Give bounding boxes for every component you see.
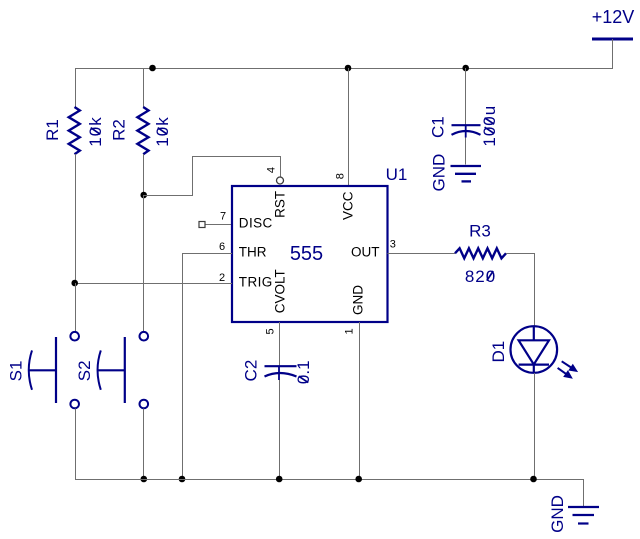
junction dot pin1 rail xyxy=(355,476,362,483)
wire R1 top xyxy=(75,68,77,107)
svg-text:GND: GND xyxy=(548,495,567,533)
power symbol +12V xyxy=(592,7,635,39)
svg-text:C1: C1 xyxy=(428,116,447,138)
wire C1 top xyxy=(465,68,467,125)
svg-text:THR: THR xyxy=(239,245,267,260)
wire pin 1 GND xyxy=(359,322,361,479)
IC U1 555 body xyxy=(232,186,388,322)
capacitor C2 xyxy=(265,366,297,380)
svg-text:GND: GND xyxy=(429,154,448,192)
ground symbol C1 xyxy=(451,166,482,181)
wire C1 to ground xyxy=(465,138,467,165)
wire OUT pin 3 xyxy=(388,253,456,255)
wire R2 bottom xyxy=(143,154,145,195)
wire LED to rail xyxy=(534,373,536,479)
svg-text:4: 4 xyxy=(266,167,278,173)
wire THR xyxy=(183,254,233,480)
wire node A to S1 xyxy=(75,283,77,332)
wire bottom rail xyxy=(75,480,584,507)
svg-text:OUT: OUT xyxy=(351,245,380,260)
wire pin 5 to C2 xyxy=(279,322,281,366)
junction dot C2 rail xyxy=(276,476,283,483)
LED D1 arrows xyxy=(558,361,577,378)
svg-text:U1: U1 xyxy=(386,165,408,184)
svg-text:S2: S2 xyxy=(75,360,94,381)
pin 4 circle RST xyxy=(277,177,284,184)
svg-text:VCC: VCC xyxy=(340,191,355,220)
svg-text:R3: R3 xyxy=(469,222,491,241)
wire R3 to LED xyxy=(506,254,535,327)
wire node B to pin 4 xyxy=(144,157,281,196)
wire TRIG xyxy=(75,283,232,285)
junction dot node B xyxy=(140,192,147,199)
svg-text:R2: R2 xyxy=(109,119,128,141)
svg-text:2: 2 xyxy=(219,272,225,284)
wire +12V stem xyxy=(612,39,614,69)
switch S1 xyxy=(28,332,79,408)
junction dot S2 rail xyxy=(141,476,148,483)
svg-text:TRIG: TRIG xyxy=(239,275,273,290)
wire top rail xyxy=(75,68,613,70)
junction dot rail C1 xyxy=(462,65,469,72)
junction dot LED rail xyxy=(530,476,537,483)
svg-text:100u: 100u xyxy=(480,105,499,147)
svg-text:3: 3 xyxy=(390,239,396,251)
wire VCC pin 8 xyxy=(348,68,350,186)
svg-text:7: 7 xyxy=(220,210,226,222)
wire node B to S2 xyxy=(143,195,145,332)
LED D1 xyxy=(511,326,558,373)
svg-text:8: 8 xyxy=(334,173,346,179)
capacitor C1 xyxy=(452,125,481,138)
svg-text:D1: D1 xyxy=(489,341,508,363)
svg-text:0.1: 0.1 xyxy=(294,360,313,384)
no-connect square pin 7 xyxy=(199,222,205,228)
wire R1 bottom xyxy=(75,154,77,283)
junction dot THR rail xyxy=(179,476,186,483)
resistor R2 xyxy=(137,107,148,154)
svg-text:+12V: +12V xyxy=(592,7,635,27)
svg-text:5: 5 xyxy=(265,328,277,334)
svg-text:6: 6 xyxy=(219,241,225,253)
svg-text:RST: RST xyxy=(273,191,288,218)
switch S2 xyxy=(97,332,148,408)
junction dot rail R2 xyxy=(149,65,156,72)
resistor R1 xyxy=(69,107,80,154)
ground symbol bottom right xyxy=(568,507,599,524)
svg-text:DISC: DISC xyxy=(239,216,273,231)
junction dot rail VCC xyxy=(345,65,352,72)
wire S1 bottom xyxy=(75,408,77,479)
svg-text:1: 1 xyxy=(343,328,355,334)
svg-text:S1: S1 xyxy=(7,361,26,382)
wire C2 bottom xyxy=(279,380,281,479)
wire R2 top xyxy=(143,68,145,107)
svg-text:820: 820 xyxy=(465,267,496,286)
junction dot node A xyxy=(71,280,78,287)
svg-text:CVOLT: CVOLT xyxy=(273,269,288,313)
pin 7 wire DISC xyxy=(205,224,231,226)
svg-text:555: 555 xyxy=(290,243,323,265)
svg-text:GND: GND xyxy=(350,285,365,315)
svg-text:C2: C2 xyxy=(242,360,261,382)
resistor R3 xyxy=(455,248,506,258)
wire S2 bottom xyxy=(143,408,145,479)
svg-text:R1: R1 xyxy=(43,119,62,141)
